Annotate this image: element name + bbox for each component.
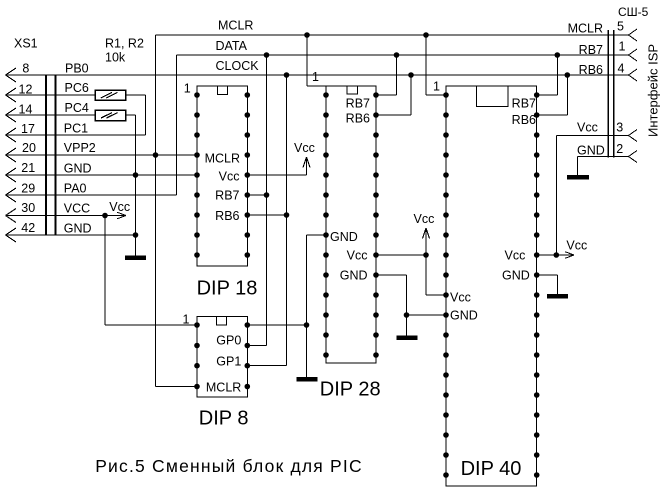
svg-text:1: 1 [619, 40, 626, 54]
svg-text:2: 2 [616, 142, 623, 156]
svg-text:GND: GND [64, 222, 92, 236]
svg-text:RB7: RB7 [579, 43, 603, 57]
svg-text:СШ-5: СШ-5 [618, 5, 649, 19]
svg-text:RB6: RB6 [579, 63, 603, 77]
svg-text:RB7: RB7 [215, 189, 239, 203]
svg-text:DIP 18: DIP 18 [197, 277, 258, 299]
svg-text:42: 42 [21, 221, 35, 235]
svg-text:12: 12 [19, 83, 33, 97]
svg-text:3: 3 [616, 121, 623, 135]
svg-text:PC6: PC6 [65, 81, 89, 95]
svg-text:PC1: PC1 [64, 122, 88, 136]
svg-text:DIP 8: DIP 8 [199, 408, 249, 430]
svg-text:GND: GND [502, 269, 530, 283]
svg-text:Интерфейс ISP: Интерфейс ISP [646, 44, 661, 137]
svg-text:1: 1 [184, 82, 191, 96]
svg-text:8: 8 [22, 62, 29, 76]
svg-text:GND: GND [577, 144, 605, 158]
svg-text:GND: GND [340, 269, 368, 283]
svg-text:Vcc: Vcc [219, 170, 240, 184]
svg-text:VCC: VCC [64, 201, 90, 215]
svg-text:RB6: RB6 [346, 112, 370, 126]
svg-text:DATA: DATA [216, 39, 248, 53]
svg-text:RB7: RB7 [512, 97, 536, 111]
svg-text:1: 1 [183, 313, 190, 327]
svg-text:17: 17 [21, 122, 35, 136]
svg-text:GND: GND [64, 162, 92, 176]
svg-text:MCLR: MCLR [218, 19, 253, 33]
svg-text:Vcc: Vcc [294, 141, 315, 155]
svg-text:10k: 10k [105, 51, 126, 65]
svg-text:5: 5 [617, 20, 624, 34]
svg-text:Vcc: Vcc [347, 249, 368, 263]
svg-text:DIP 28: DIP 28 [320, 378, 381, 400]
svg-text:Vcc: Vcc [577, 121, 598, 135]
svg-text:Vcc: Vcc [566, 239, 587, 253]
svg-text:R1, R2: R1, R2 [105, 37, 144, 51]
svg-text:MCLR: MCLR [205, 152, 240, 166]
svg-text:MCLR: MCLR [568, 22, 603, 36]
svg-text:RB6: RB6 [215, 209, 239, 223]
svg-text:30: 30 [21, 201, 35, 215]
svg-text:VPP2: VPP2 [64, 141, 96, 155]
svg-text:PA0: PA0 [64, 182, 87, 196]
svg-text:Рис.5 Сменный блок для PIC: Рис.5 Сменный блок для PIC [95, 456, 363, 476]
svg-text:GND: GND [450, 309, 478, 323]
svg-text:MCLR: MCLR [206, 381, 241, 395]
svg-text:Vcc: Vcc [505, 249, 526, 263]
svg-text:4: 4 [618, 62, 625, 76]
svg-text:CLOCK: CLOCK [216, 59, 260, 73]
svg-text:Vcc: Vcc [414, 212, 435, 226]
svg-text:PB0: PB0 [65, 62, 89, 76]
svg-text:RB7: RB7 [346, 97, 370, 111]
svg-text:GP0: GP0 [216, 334, 241, 348]
svg-text:20: 20 [22, 141, 36, 155]
svg-text:29: 29 [21, 181, 35, 195]
svg-text:GP1: GP1 [216, 355, 241, 369]
svg-text:DIP 40: DIP 40 [461, 458, 522, 480]
svg-text:GND: GND [330, 230, 358, 244]
svg-text:1: 1 [312, 70, 319, 84]
svg-text:RB6: RB6 [512, 113, 536, 127]
svg-text:Vcc: Vcc [109, 200, 130, 214]
svg-text:XS1: XS1 [14, 37, 38, 51]
svg-text:Vcc: Vcc [450, 291, 471, 305]
svg-text:PC4: PC4 [65, 101, 89, 115]
svg-text:14: 14 [19, 103, 33, 117]
svg-text:21: 21 [21, 161, 35, 175]
svg-text:1: 1 [433, 80, 440, 94]
